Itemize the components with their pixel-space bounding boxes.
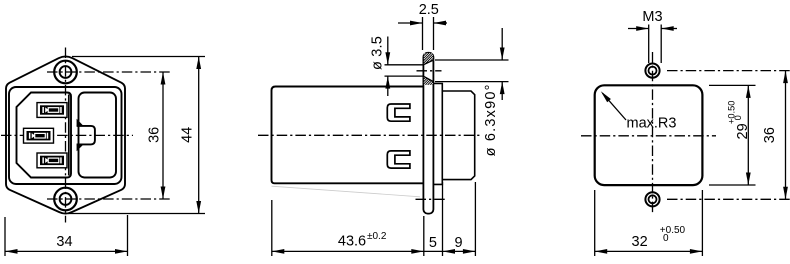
flange section hatch bottom band	[424, 76, 433, 84]
fuse drawer latch tab	[77, 119, 84, 126]
filter body outline, side view	[272, 87, 424, 184]
extension lines dia 6.3x90	[435, 59, 509, 61]
mounting flange, side view	[423, 53, 433, 214]
svg-text:34: 34	[56, 234, 72, 250]
svg-text:5: 5	[429, 235, 437, 251]
dimension line 36 panel	[785, 71, 787, 200]
extension line 5/9 shared	[442, 182, 444, 256]
dimension text dia 6.3x90	[483, 83, 499, 156]
svg-text:29: 29	[735, 123, 751, 139]
extension lines 32	[594, 190, 596, 256]
M3 hole bottom inner	[649, 195, 657, 203]
M3 hole top outer	[645, 64, 659, 78]
centerline horizontal, front view middle	[1, 134, 133, 136]
extension lines 2.5	[422, 17, 424, 50]
centerline flange screw hole bottom	[416, 198, 446, 200]
M3 hole bottom outer	[645, 192, 659, 206]
extension lines dia 3.5	[385, 64, 424, 66]
extension line 43.6 left	[271, 200, 273, 256]
flange section hatch top band	[424, 53, 433, 65]
centerline flange screw hole top	[417, 70, 442, 72]
bottom screw hole inner circle	[60, 193, 72, 205]
IEC outlet D-shaped face	[17, 93, 72, 178]
centerline top hole (36 extension)	[667, 70, 790, 72]
top screw hole outer circle	[54, 61, 77, 84]
svg-text:M3: M3	[642, 9, 662, 25]
outlet face inner contour line	[68, 95, 70, 176]
dimension line 34	[5, 250, 128, 252]
M3 hole top inner	[649, 67, 657, 75]
svg-text:9: 9	[454, 235, 462, 251]
dimension line 32	[595, 250, 703, 252]
dimension line 44	[198, 57, 200, 214]
outlet contact slot bottom	[37, 153, 67, 168]
panel cutout rounded rectangle	[595, 85, 703, 185]
body bottom wedge line	[272, 186, 421, 197]
svg-text:36: 36	[762, 127, 778, 143]
retaining clip top	[387, 104, 410, 121]
svg-text:0: 0	[733, 115, 743, 120]
dimension line bottom, side view	[272, 250, 476, 252]
step section behind panel	[433, 84, 442, 185]
extension line 9 right	[474, 182, 476, 256]
svg-text:44: 44	[180, 127, 196, 143]
countersink cone edge lines	[424, 60, 433, 64]
svg-text:36: 36	[147, 127, 163, 143]
extension line 44 top	[72, 56, 205, 58]
centerline bottom screw hole (36 extension)	[47, 198, 170, 200]
dimension line 2.5	[398, 22, 423, 24]
svg-text:max.R3: max.R3	[627, 116, 677, 132]
dimension text 44	[180, 127, 196, 143]
recessed well rounded rectangle	[9, 87, 122, 184]
svg-text:2.5: 2.5	[419, 2, 439, 18]
M3 dimension line	[628, 28, 649, 30]
top screw hole inner circle	[60, 66, 72, 78]
dimension text 29 +0.50/0	[726, 101, 751, 140]
svg-text:43.6: 43.6	[338, 234, 366, 250]
svg-text:32: 32	[632, 234, 648, 250]
extension lines 29	[709, 84, 756, 86]
extension line 34 left	[4, 217, 6, 256]
outlet contact slot middle	[24, 128, 54, 143]
centerline top screw hole (36 extension)	[47, 71, 170, 73]
front protruding body	[442, 91, 474, 180]
centerline horizontal, cutout view	[581, 135, 716, 137]
dimension text 36 panel	[762, 127, 778, 143]
centerline vertical, cutout view	[652, 52, 654, 215]
extension line 43.6/5 shared	[423, 216, 425, 256]
dimension text dia 3.5	[370, 36, 386, 70]
M3 extension lines	[648, 25, 650, 64]
bottom screw hole outer circle	[54, 188, 77, 211]
svg-text:ø 6.3x90°: ø 6.3x90°	[483, 83, 499, 156]
centerline horizontal, side view	[258, 134, 481, 136]
centerline vertical, front view	[65, 48, 67, 223]
svg-text:ø 3.5: ø 3.5	[370, 36, 386, 70]
dimension text 36	[147, 127, 163, 143]
centerline bottom hole (36 extension)	[667, 198, 790, 200]
extension line 44 bottom	[68, 213, 205, 215]
outlet contact slot top	[37, 103, 67, 118]
extension line 34 right	[127, 215, 129, 256]
max.R3 leader arrow	[603, 93, 627, 120]
svg-text:±0.2: ±0.2	[367, 231, 387, 242]
retaining clip bottom	[387, 151, 410, 168]
dimension line 36	[162, 72, 164, 199]
dimension line dia 6.3x90	[501, 28, 503, 60]
dimension line dia 3.5	[387, 37, 389, 65]
fuse drawer rounded rectangle	[79, 93, 117, 178]
mounting flange outline, front view	[6, 57, 125, 214]
svg-text:0: 0	[663, 233, 669, 244]
dimension line 29	[747, 85, 749, 185]
